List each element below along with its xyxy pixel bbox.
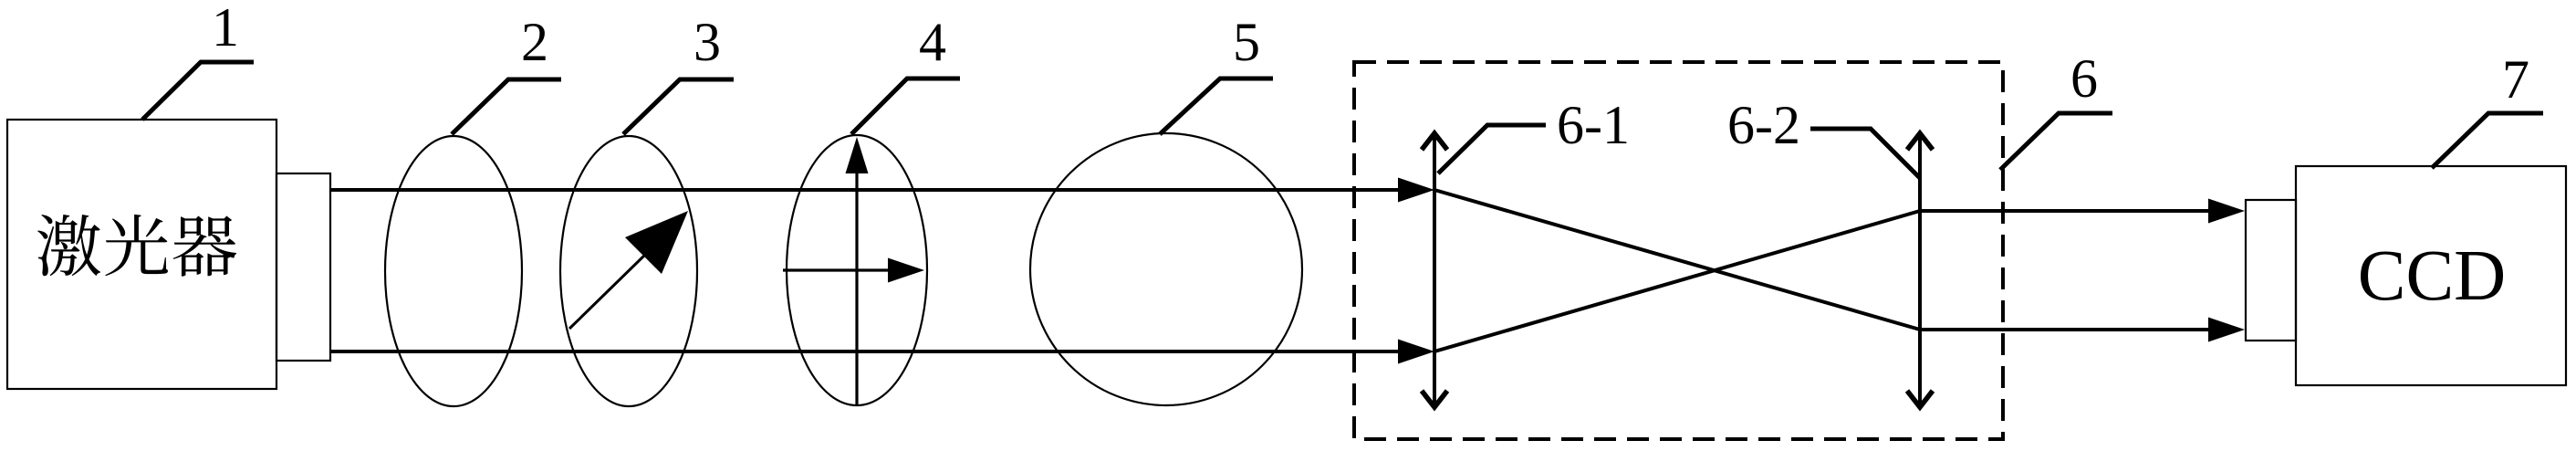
svg-text:CCD: CCD xyxy=(2358,236,2506,316)
wire: crossing beam 6-1 top to 6-2 bottom xyxy=(1434,190,1920,330)
leader line label 7 xyxy=(2432,113,2543,168)
svg-text:1: 1 xyxy=(212,0,239,58)
lens 6-1 (double-arrow thin lens) xyxy=(1433,135,1436,405)
CCD box 7 xyxy=(2296,166,2566,385)
svg-text:6-1: 6-1 xyxy=(1557,95,1630,155)
svg-text:6-2: 6-2 xyxy=(1727,95,1800,155)
wire: upper output beam to CCD xyxy=(1920,209,2211,213)
dashed box 6 (beam expander) xyxy=(1354,62,2003,439)
leader line label 1 xyxy=(142,62,254,120)
leader line label 6-1 xyxy=(1438,125,1546,173)
svg-text:2: 2 xyxy=(521,12,548,72)
svg-text:5: 5 xyxy=(1233,12,1260,72)
wire: upper beam from laser to lens 6-1 xyxy=(330,188,1399,192)
lens 4 (wave plate with axes arrows) xyxy=(787,135,927,405)
lens 5 (focusing lens) xyxy=(1030,133,1302,405)
leader line label 4 xyxy=(851,79,960,134)
leader line label 6-2 xyxy=(1810,129,1920,178)
wire: lower output beam to CCD xyxy=(1920,328,2211,331)
leader line label 5 xyxy=(1160,79,1273,134)
laser box 1 xyxy=(7,120,276,389)
lens 6-2 (double-arrow thin lens) xyxy=(1918,135,1922,405)
leader line label 3 xyxy=(623,79,734,134)
leader line label 6 xyxy=(2000,113,2112,170)
svg-text:4: 4 xyxy=(919,12,946,72)
lens 3 (polarizer with diagonal arrow) xyxy=(560,136,697,406)
svg-text:3: 3 xyxy=(694,12,721,72)
svg-text:7: 7 xyxy=(2502,49,2529,110)
wire: lower beam from laser to lens 6-1 xyxy=(330,350,1399,353)
svg-text:6: 6 xyxy=(2070,48,2098,109)
CCD aperture xyxy=(2246,200,2296,341)
laser output aperture xyxy=(276,173,330,361)
wire: crossing beam 6-1 bottom to 6-2 top xyxy=(1434,211,1920,351)
lens 2 (collimating lens) xyxy=(385,136,522,406)
laser text 激光器 xyxy=(37,215,100,276)
leader line label 2 xyxy=(452,79,561,134)
